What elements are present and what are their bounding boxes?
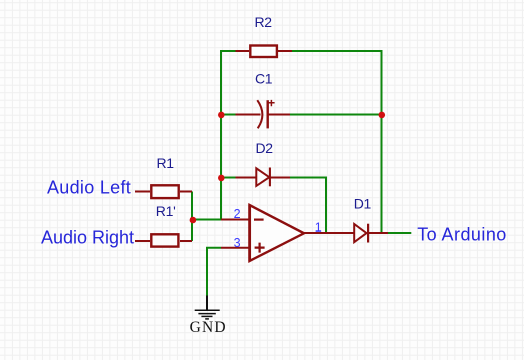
wire net junction to op-amp pin 2 bbox=[193, 219, 221, 221]
resistor R1' bbox=[135, 234, 192, 246]
svg-text:1: 1 bbox=[315, 221, 322, 235]
resistor R2 bbox=[236, 46, 293, 58]
svg-text:D2: D2 bbox=[256, 140, 274, 156]
net label GND bbox=[190, 319, 227, 336]
wire R1 to R1' vertical net bbox=[191, 192, 193, 242]
wire output net to To Arduino bbox=[388, 232, 411, 234]
svg-text:R1: R1 bbox=[157, 155, 175, 171]
op-amp U1 bbox=[221, 205, 354, 262]
net label Audio Left bbox=[47, 178, 131, 198]
diode D1 bbox=[354, 224, 388, 243]
svg-text:2: 2 bbox=[234, 207, 241, 221]
wire D2 right net down to op-amp output bbox=[290, 178, 326, 234]
svg-text:Audio Left: Audio Left bbox=[47, 178, 131, 198]
svg-text:To Arduino: To Arduino bbox=[417, 224, 507, 244]
svg-text:GND: GND bbox=[190, 319, 227, 336]
wire C1 right net bbox=[290, 114, 382, 116]
net label Audio Right bbox=[41, 227, 134, 247]
svg-text:R2: R2 bbox=[255, 14, 273, 30]
svg-text:D1: D1 bbox=[354, 195, 372, 211]
pin number 1 bbox=[315, 221, 322, 235]
label R2 bbox=[255, 14, 273, 30]
svg-text:C1: C1 bbox=[255, 70, 273, 86]
junction dot at R1 R1' node bbox=[190, 217, 197, 224]
wire D2 left net bbox=[221, 177, 236, 179]
label R1' bbox=[156, 203, 176, 219]
resistor R1 bbox=[135, 185, 192, 198]
label C1 bbox=[255, 70, 273, 86]
diode D2 bbox=[236, 168, 291, 187]
svg-text:Audio Right: Audio Right bbox=[41, 227, 134, 247]
ground bbox=[195, 296, 220, 319]
wire net from R2 right to right vertical rail bbox=[292, 51, 382, 233]
junction dot at C1 left bbox=[218, 112, 225, 119]
wire C1 left net bbox=[221, 114, 236, 116]
label D2 bbox=[256, 140, 274, 156]
pin number 3 bbox=[234, 236, 241, 250]
junction dot at C1 right bbox=[379, 112, 386, 119]
junction dot at D2 left bbox=[218, 175, 225, 182]
capacitor C1 bbox=[236, 100, 291, 128]
svg-text:R1': R1' bbox=[156, 203, 176, 219]
pin number 2 bbox=[234, 207, 241, 221]
label R1 bbox=[157, 155, 175, 171]
label D1 bbox=[354, 195, 372, 211]
net label To Arduino bbox=[417, 224, 507, 244]
svg-text:3: 3 bbox=[234, 236, 241, 250]
wire net from R2 left to left vertical rail bbox=[221, 51, 236, 220]
wire ground net to op-amp pin 3 bbox=[207, 248, 221, 296]
